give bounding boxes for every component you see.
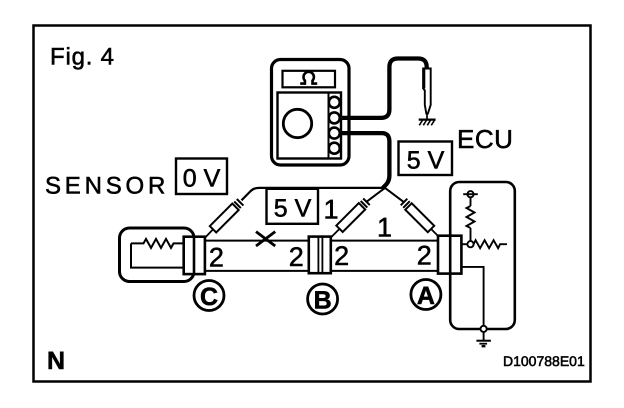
wire from splitter to probe C [242, 188, 386, 200]
svg-text:2: 2 [209, 243, 224, 273]
ground node on ECU case [481, 326, 487, 332]
test probe at connector B [332, 199, 370, 237]
svg-text:SENSOR: SENSOR [45, 173, 169, 200]
connector C [184, 237, 205, 274]
connector designator C [194, 281, 224, 311]
svg-text:2: 2 [289, 242, 304, 272]
wire node to ground [483, 332, 485, 340]
svg-text:5 V: 5 V [274, 195, 312, 223]
wire terminal to resistor [470, 197, 472, 206]
multimeter (ohmmeter) [272, 60, 350, 166]
test probe (top, at ground point) [423, 69, 431, 119]
wire from splitter to probe B [366, 188, 385, 202]
svg-text:ECU: ECU [457, 124, 513, 154]
wire from splitter to probe A [385, 188, 404, 202]
connector B [309, 237, 331, 274]
svg-text:A: A [417, 282, 435, 310]
ground contact point hatching [419, 120, 436, 126]
ground symbol [476, 341, 491, 347]
wire pin2 B to A [331, 270, 439, 272]
connector A [438, 236, 461, 274]
callout box 5 V (middle) [267, 189, 319, 224]
svg-text:1: 1 [377, 213, 392, 243]
svg-text:N: N [47, 347, 65, 375]
pull-up resistor (vertical) [467, 206, 475, 228]
multimeter display symbol [300, 72, 317, 84]
svg-text:5 V: 5 V [407, 147, 445, 175]
wire resistor to node [470, 228, 472, 241]
wire pin2 C to B [205, 270, 310, 272]
wire connector A pin2 to ground node [461, 267, 483, 326]
connector designator A [411, 280, 441, 310]
svg-text:0 V: 0 V [183, 165, 221, 193]
wire connector A pin1 to node [461, 243, 467, 245]
svg-text:1: 1 [323, 195, 338, 225]
node (signal input) [467, 241, 473, 247]
svg-text:C: C [200, 283, 218, 311]
callout box 5 V (right) [399, 142, 453, 176]
sensor body [120, 228, 195, 282]
svg-text:D100788E01: D100788E01 [503, 353, 585, 369]
meter lead wire to top probe [339, 59, 427, 118]
sensor internal resistor loop [131, 239, 184, 268]
svg-text:Fig. 4: Fig. 4 [50, 44, 115, 71]
ECU box [450, 182, 515, 329]
callout box 0 V [176, 159, 227, 195]
open-circuit X mark [256, 232, 275, 246]
test probe at connector C [205, 199, 244, 238]
svg-text:2: 2 [417, 241, 432, 271]
wire pin1 B to A [331, 240, 439, 242]
svg-text:B: B [314, 286, 332, 314]
svg-text:2: 2 [334, 241, 349, 271]
test probe at connector A [401, 199, 440, 237]
5V supply terminal [463, 191, 478, 197]
input resistor (horizontal) [474, 240, 507, 248]
meter lead wire to probe splitter [339, 133, 389, 188]
connector designator B [308, 284, 338, 314]
wire pin1 C to B [205, 240, 310, 242]
